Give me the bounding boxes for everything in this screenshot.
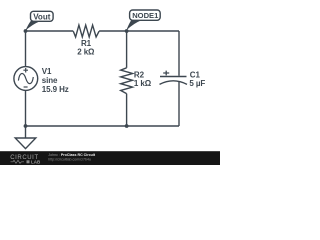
svg-text:sine: sine bbox=[42, 76, 58, 85]
svg-text:LAB: LAB bbox=[31, 159, 41, 164]
svg-text:Vout: Vout bbox=[33, 12, 51, 21]
svg-text:Johnc : ProClass RC Circuit: Johnc : ProClass RC Circuit bbox=[48, 153, 96, 157]
svg-text:NODE1: NODE1 bbox=[132, 11, 159, 20]
svg-text:1 kΩ: 1 kΩ bbox=[134, 79, 152, 88]
svg-text:V1: V1 bbox=[42, 67, 52, 76]
svg-text:5 µF: 5 µF bbox=[189, 79, 205, 88]
svg-text:http://circuitlab.com/c/7b4u: http://circuitlab.com/c/7b4u bbox=[48, 158, 91, 162]
svg-text:2 kΩ: 2 kΩ bbox=[77, 47, 95, 56]
svg-text:15.9 Hz: 15.9 Hz bbox=[42, 85, 69, 94]
